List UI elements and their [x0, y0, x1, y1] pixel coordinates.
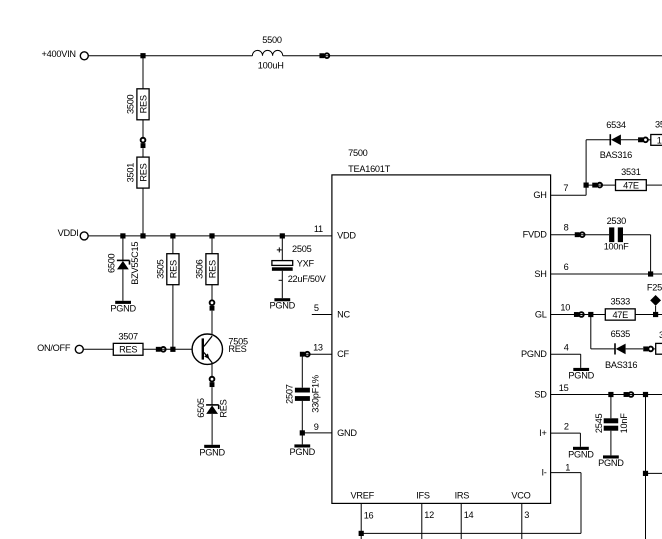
capacitor 2545 10nF	[594, 413, 629, 434]
connector at GL pin	[574, 312, 584, 317]
capacitor 2505 YXF 22uF/50V	[272, 244, 327, 284]
op-amp U7500 TEA1601T IC body	[332, 148, 551, 503]
svg-text:PGND: PGND	[568, 370, 594, 380]
wire ON/OFF to R3507	[84, 348, 114, 350]
junction VDD at R3505	[170, 233, 175, 238]
junction at fuse F2500	[653, 312, 658, 317]
junction bottom rail at pin 16	[359, 531, 364, 536]
svg-text:5500: 5500	[262, 35, 282, 45]
svg-text:6500: 6500	[106, 253, 116, 273]
svg-text:PGND: PGND	[270, 301, 296, 311]
resistor 3507 RES	[113, 331, 143, 355]
svg-text:NC: NC	[337, 310, 350, 320]
fuse F2500 diamond	[647, 283, 662, 306]
svg-text:GL: GL	[535, 309, 547, 319]
resistor 3500 RES	[126, 89, 149, 120]
wire zener 6505 to ground	[211, 414, 213, 445]
wire SH pin 6	[551, 273, 662, 275]
wire CF pin 13 stub	[302, 353, 332, 355]
wire to D6535	[591, 348, 615, 350]
svg-text:47E: 47E	[623, 181, 639, 191]
capacitor 2530 100nF	[604, 216, 629, 252]
connector below R3506	[210, 300, 215, 310]
capacitor 2507 330pF1%	[284, 375, 320, 413]
svg-text:SH: SH	[534, 269, 546, 279]
svg-text:6535: 6535	[611, 329, 631, 339]
wire GND pin 9 stub	[302, 432, 332, 434]
wire VDD to R3505	[172, 236, 174, 254]
svg-text:3: 3	[524, 510, 529, 520]
svg-text:SD: SD	[534, 389, 547, 399]
wire connector to Q7505 collector	[211, 311, 213, 337]
svg-text:100uH: 100uH	[258, 61, 284, 71]
resistor 3501 RES	[126, 157, 149, 188]
ground PGND of 2507	[290, 444, 316, 457]
wire VCO pin 3	[521, 503, 523, 539]
wire R3506 to connector	[211, 285, 213, 300]
resistor 3532 partial at edge	[656, 330, 662, 354]
resistor 3531 47E	[616, 167, 647, 190]
connector after D6534	[638, 137, 648, 142]
wire VDD to R3506	[211, 236, 213, 254]
svg-text:I-: I-	[541, 467, 546, 477]
junction on SH line	[648, 271, 653, 276]
wire NC pin 5 stub	[312, 314, 332, 316]
wire +400V rail right	[283, 55, 662, 57]
svg-text:PGND: PGND	[598, 458, 624, 468]
wire GL drop to D6535	[590, 315, 592, 349]
svg-text:7: 7	[563, 183, 568, 193]
wire GH pin 7 stub	[551, 194, 587, 196]
svg-text:RES: RES	[119, 345, 137, 355]
svg-text:+400VIN: +400VIN	[42, 49, 76, 59]
wire GND node to ground	[301, 433, 303, 445]
svg-text:RES: RES	[207, 260, 217, 278]
junction GH branch	[584, 183, 589, 188]
junction GND pin 9	[300, 430, 305, 435]
svg-text:FVDD: FVDD	[523, 230, 548, 240]
resistor 3506 RES	[195, 254, 218, 285]
svg-text:7500: 7500	[348, 148, 368, 158]
inductor 5500 100uH	[252, 35, 283, 70]
connector at CF pin	[300, 352, 310, 357]
svg-text:RES: RES	[138, 95, 148, 113]
svg-text:PGND: PGND	[110, 303, 136, 313]
junction base node	[170, 347, 175, 352]
wire connector to R3532	[654, 348, 656, 350]
node VDDI terminal	[58, 228, 89, 240]
svg-text:3507: 3507	[118, 331, 138, 341]
ground PGND of 2505	[270, 298, 296, 311]
svg-text:RES: RES	[168, 260, 178, 278]
svg-text:100nF: 100nF	[604, 242, 629, 252]
svg-text:3501: 3501	[126, 163, 136, 183]
svg-text:10nF: 10nF	[619, 413, 629, 434]
svg-text:2530: 2530	[607, 216, 627, 226]
connector at FVDD pin	[575, 232, 585, 237]
wire C2545 to ground	[610, 431, 612, 456]
svg-text:1: 1	[565, 462, 570, 472]
svg-text:8: 8	[564, 223, 569, 233]
wire +400V to R3500	[142, 56, 144, 89]
diode 6534 BAS316	[600, 120, 632, 160]
wire connector to zener 6505	[211, 387, 213, 405]
svg-text:3506: 3506	[195, 259, 205, 279]
wire C2530 drop to SH	[650, 235, 652, 274]
wire D6535 to connector	[626, 348, 644, 350]
wire pin 2 drop	[579, 433, 581, 447]
svg-text:14: 14	[464, 510, 474, 520]
connector on SD line	[624, 392, 634, 397]
wire SD pin 15	[551, 394, 662, 396]
wire C2507 to GND node	[301, 401, 303, 433]
svg-text:6: 6	[564, 262, 569, 272]
svg-text:22uF/50V: 22uF/50V	[288, 274, 327, 284]
wire connector to R3530	[648, 139, 650, 141]
svg-text:100E: 100E	[657, 135, 662, 145]
svg-text:GH: GH	[533, 190, 546, 200]
ground PGND of pin 2	[568, 447, 594, 460]
svg-text:3505: 3505	[156, 259, 166, 279]
wire zener 6500 to ground	[122, 269, 124, 300]
wire R3533 to edge	[635, 314, 662, 316]
wire GH branch to R3531	[586, 184, 615, 186]
transistor Q7505 RES	[192, 334, 248, 364]
wire connector to R3501	[142, 148, 144, 157]
wire I+ pin 2 stub	[551, 432, 581, 434]
svg-text:2545: 2545	[594, 414, 604, 434]
svg-text:BAS316: BAS316	[600, 150, 632, 160]
svg-text:BAS316: BAS316	[605, 360, 637, 370]
svg-text:YXF: YXF	[297, 258, 315, 268]
wire fuse stem	[655, 306, 657, 312]
connector on +400V rail	[319, 53, 329, 58]
node ON/OFF terminal	[37, 343, 83, 353]
svg-text:12: 12	[424, 510, 434, 520]
svg-text:2507: 2507	[284, 384, 294, 404]
node +400VIN terminal	[42, 49, 89, 60]
svg-text:VDD: VDD	[337, 231, 356, 241]
junction GL branch	[588, 312, 593, 317]
ground PGND of 2545	[598, 455, 624, 468]
svg-text:15: 15	[559, 383, 569, 393]
wire R3531 to edge	[646, 184, 662, 186]
wire R3501 to VDD rail	[142, 188, 144, 236]
connector on base wire	[156, 347, 166, 352]
svg-text:TEA1601T: TEA1601T	[348, 164, 391, 174]
svg-text:F2500: F2500	[647, 283, 662, 293]
wire I- pin 1 stub	[551, 472, 581, 474]
svg-text:RES: RES	[138, 163, 148, 181]
junction SD at C2545	[608, 392, 613, 397]
svg-text:6505: 6505	[196, 398, 206, 418]
wire GH riser to D6534	[586, 139, 610, 141]
svg-text:16: 16	[364, 511, 374, 521]
ground PGND of 6505	[199, 445, 225, 458]
resistor 3530 partial at edge	[651, 119, 662, 145]
wire CF to C2507	[301, 354, 303, 388]
svg-text:2: 2	[564, 422, 569, 432]
wire VDD to zener 6500	[122, 236, 124, 260]
wire D6534 to connector	[621, 139, 638, 141]
svg-text:2505: 2505	[292, 244, 312, 254]
svg-text:3530: 3530	[655, 119, 662, 129]
svg-text:PGND: PGND	[568, 449, 594, 459]
wire GH riser	[585, 140, 587, 196]
svg-text:10: 10	[560, 303, 570, 313]
connector below emitter	[210, 377, 215, 387]
wire C2505 to ground	[281, 271, 283, 298]
wire +400V rail left	[89, 55, 253, 57]
wire pin 1 drop	[580, 473, 582, 534]
wire right column down	[645, 395, 647, 539]
svg-text:13: 13	[313, 342, 323, 352]
svg-text:VREF: VREF	[350, 491, 374, 501]
svg-text:9: 9	[314, 422, 319, 432]
junction +400V at R3500	[140, 53, 145, 58]
svg-text:RES: RES	[228, 344, 246, 354]
svg-text:IFS: IFS	[416, 491, 430, 501]
svg-text:3533: 3533	[611, 297, 631, 307]
wire C2530 to corner	[623, 234, 651, 236]
connector between 3500 and 3501	[141, 138, 146, 148]
svg-text:5: 5	[314, 303, 319, 313]
junction VDD at zener 6500	[120, 233, 125, 238]
svg-text:GND: GND	[337, 428, 357, 438]
svg-text:PGND: PGND	[199, 447, 225, 457]
ground PGND of 6500	[110, 301, 136, 314]
svg-text:6534: 6534	[606, 120, 626, 130]
svg-text:PGND: PGND	[290, 447, 316, 457]
svg-text:ON/OFF: ON/OFF	[37, 343, 71, 353]
svg-text:VCO: VCO	[511, 491, 530, 501]
connector after D6535	[643, 346, 653, 351]
svg-text:4: 4	[564, 342, 569, 352]
svg-text:BZV55C15: BZV55C15	[130, 242, 140, 285]
svg-text:11: 11	[314, 224, 323, 234]
wire right column branch to edge	[646, 472, 662, 474]
junction VDD at R3506	[209, 233, 214, 238]
wire VREF pin 16	[360, 503, 362, 539]
svg-text:RES: RES	[219, 399, 229, 417]
wire R3500 to connector	[142, 120, 144, 138]
junction right column	[643, 471, 648, 476]
junction SD at right column	[643, 392, 648, 397]
svg-text:I+: I+	[539, 428, 546, 438]
svg-text:CF: CF	[337, 349, 349, 359]
ground PGND of pin 4	[568, 368, 594, 381]
resistor 3505 RES	[156, 254, 180, 285]
zener diode 6500 BZV55C15	[106, 242, 140, 285]
wire IFS pin 12	[421, 503, 423, 539]
zener diode 6505 RES	[196, 398, 229, 418]
resistor 3533 47E	[605, 297, 635, 321]
svg-text:3500: 3500	[126, 94, 136, 114]
wire bottom rail	[361, 532, 581, 534]
wire FVDD pin 8 stub	[551, 234, 610, 236]
wire IRS pin 14	[460, 503, 462, 539]
wire GL pin 10 stub	[551, 314, 606, 316]
wire PGND pin 4 stub	[551, 353, 581, 355]
svg-text:47E: 47E	[612, 310, 628, 320]
svg-text:330pF1%: 330pF1%	[311, 375, 321, 413]
wire VDD to C2505	[281, 236, 283, 261]
svg-text:3531: 3531	[621, 167, 641, 177]
svg-text:IRS: IRS	[455, 491, 470, 501]
wire R3505 to base node	[172, 285, 174, 350]
connector on GH branch	[592, 183, 602, 188]
wire emitter down	[211, 362, 213, 376]
wire VDD rail	[88, 235, 332, 237]
junction VDD at C2505	[280, 233, 285, 238]
diode 6535 BAS316	[605, 329, 637, 370]
junction VDD at R3501	[140, 233, 145, 238]
svg-text:PGND: PGND	[521, 349, 547, 359]
svg-text:VDDI: VDDI	[58, 228, 79, 238]
wire SD to C2545	[610, 395, 612, 419]
wire pin 4 drop	[580, 354, 582, 368]
wire R3507 to base node	[143, 348, 202, 350]
